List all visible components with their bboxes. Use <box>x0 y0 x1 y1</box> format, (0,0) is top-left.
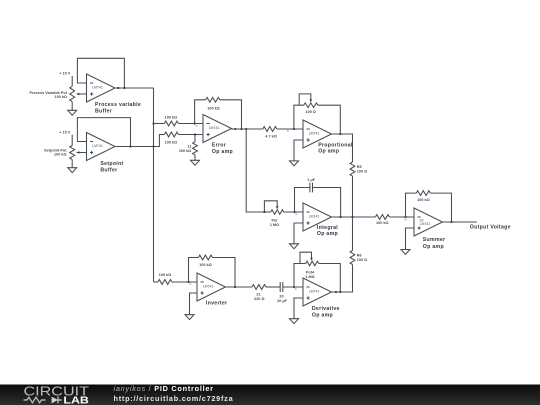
resistor R6 100 Ohm <box>332 217 368 292</box>
CircuitLab logo resistor icon <box>24 397 46 403</box>
node error feedback left junction <box>194 122 196 124</box>
wire pot bottom to ground <box>71 160 73 168</box>
resistor R10 100 kOhm summer feedback <box>406 191 452 222</box>
svg-text:10 μF: 10 μF <box>277 299 288 303</box>
svg-text:100 Ω: 100 Ω <box>306 110 316 114</box>
wire feedback loop U2 output to inverting input <box>77 118 130 147</box>
node U2 feedback junction <box>129 145 131 147</box>
wire inverter + input to ground <box>190 293 198 315</box>
svg-text:R5: R5 <box>357 165 362 169</box>
wire U1 output to bus <box>115 87 154 89</box>
wire feedback loop U1 output to inverting input <box>77 58 124 87</box>
svg-text:100 kΩ: 100 kΩ <box>199 263 211 267</box>
wire inverter input from bus <box>154 281 158 283</box>
op-amp U1 LM741 Process variable Buffer <box>87 74 142 115</box>
potentiometer Setpoint Pot 100 kOhm <box>44 146 75 160</box>
node derivative output pin dot <box>335 291 337 293</box>
op-amp U2 LM741 Setpoint Buffer <box>87 133 124 174</box>
svg-text:Op amp: Op amp <box>423 244 444 250</box>
svg-text:Buffer: Buffer <box>95 109 112 115</box>
node error branch junction <box>245 128 247 130</box>
potentiometer 100 Ohm proportional feedback <box>294 94 340 134</box>
wire derivative + input to ground <box>294 298 303 319</box>
svg-text:Inverter: Inverter <box>206 301 227 307</box>
svg-text:20: 20 <box>279 295 283 299</box>
svg-text:100 Ω: 100 Ω <box>357 170 367 174</box>
resistor R1 100 kOhm (to error - input) <box>154 115 204 126</box>
node inverter feedback junction <box>234 286 236 288</box>
wire error output <box>232 128 263 130</box>
node bus joins setpoint output <box>152 145 154 147</box>
svg-text:Op amp: Op amp <box>318 148 339 154</box>
svg-text:100 kΩ: 100 kΩ <box>55 95 67 99</box>
svg-text:100 kΩ: 100 kΩ <box>165 140 177 144</box>
svg-text:1 μF: 1 μF <box>307 178 315 182</box>
node summer feedback junction <box>450 221 452 223</box>
svg-text:11: 11 <box>187 144 191 148</box>
potentiometer Pot 1 MOhm integral input <box>264 201 303 227</box>
svg-text:http://circuitlab.com/c729fza: http://circuitlab.com/c729fza <box>114 394 234 403</box>
potentiometer Process Variable Pot 100 kOhm <box>30 86 75 101</box>
wire main bus process variable down to inverter <box>153 88 155 282</box>
svg-text:Summer: Summer <box>423 237 446 243</box>
op-amp U3 LM741 Error Op amp <box>203 115 233 156</box>
node +15V supply label (process variable) <box>59 72 72 87</box>
resistor R8 100 kOhm inverter feedback <box>189 255 236 287</box>
CircuitLab logo diode icon <box>52 397 62 404</box>
op-amp U5 LM741 Integral Op amp <box>303 203 338 237</box>
ground (setpoint pot) <box>68 168 77 173</box>
svg-text:100 kΩ: 100 kΩ <box>417 198 429 202</box>
svg-text:LM741: LM741 <box>209 126 220 130</box>
svg-text:Derivative: Derivative <box>312 306 340 312</box>
svg-text:Output Voltage: Output Voltage <box>470 224 511 230</box>
svg-text:LM741: LM741 <box>309 215 320 219</box>
svg-text:4.7 kΩ: 4.7 kΩ <box>265 135 276 139</box>
svg-text:Process variable: Process variable <box>95 102 141 108</box>
capacitor C1 1 uF integral feedback <box>295 178 341 217</box>
op-amp U7 LM741 Derivative Op amp <box>303 278 340 319</box>
node summer input junction <box>404 216 406 218</box>
footer bar <box>0 385 540 405</box>
node bus branch to error inverting input <box>152 122 154 124</box>
capacitor C2 10 uF <box>277 282 303 303</box>
svg-text:100 Ω: 100 Ω <box>357 258 367 262</box>
node derivative feedback junction <box>339 291 341 293</box>
svg-text:220 Ω: 220 Ω <box>254 297 264 301</box>
wire summer output <box>443 221 477 223</box>
svg-text:Op amp: Op amp <box>317 231 338 237</box>
svg-text:Op amp: Op amp <box>312 313 333 319</box>
wire proportional + input to ground <box>294 140 303 161</box>
node R11 tap junction <box>194 133 196 135</box>
resistor R9 100 kOhm summer input <box>375 215 414 226</box>
resistor R21 220 Ohm <box>252 285 280 302</box>
svg-text:LM741: LM741 <box>92 86 103 90</box>
resistor R5 100 Ohm <box>350 162 367 217</box>
svg-text:R6: R6 <box>357 254 362 258</box>
wire setpoint jog up to error + resistor <box>154 135 165 147</box>
node +15V supply label (setpoint) <box>59 130 72 145</box>
node integral input junction <box>293 211 295 213</box>
ground (integral) <box>290 244 299 249</box>
ground (summer) <box>401 250 410 255</box>
svg-text:+ 15 V: + 15 V <box>59 72 71 76</box>
svg-text:+ 15 V: + 15 V <box>59 130 71 134</box>
svg-text:Setpoint: Setpoint <box>100 161 123 167</box>
svg-text:100 kΩ: 100 kΩ <box>376 221 388 225</box>
resistor R3 100 kOhm error feedback <box>195 97 242 129</box>
resistor R4 4.7 kOhm <box>263 127 303 139</box>
ground (error + divider) <box>191 160 200 165</box>
op-amp U6 LM741 Inverter <box>197 273 227 307</box>
node proportional input junction <box>293 128 295 130</box>
svg-text:LM741: LM741 <box>309 290 320 294</box>
ground (process variable pot) <box>68 110 77 115</box>
node summing bus junction <box>351 216 353 218</box>
svg-text:LM741: LM741 <box>92 144 103 148</box>
wire pot wiper to buffer + input <box>76 151 87 154</box>
wire error branch down to integral pot <box>246 129 264 212</box>
potentiometer Pot4 1 MOhm derivative feedback <box>294 252 340 292</box>
node integral pot left junction <box>263 211 265 213</box>
node error feedback junction <box>240 128 242 130</box>
node error output pin dot <box>234 128 236 130</box>
svg-text:100 kΩ: 100 kΩ <box>54 152 66 156</box>
svg-text:100 kΩ: 100 kΩ <box>159 273 171 277</box>
svg-text:Error: Error <box>212 142 226 148</box>
svg-text:LM741: LM741 <box>309 132 320 136</box>
node U1 output pin dot <box>117 87 119 89</box>
svg-text:1 MΩ: 1 MΩ <box>270 223 279 227</box>
node inverter input junction <box>187 281 189 283</box>
ground (proportional) <box>290 161 299 166</box>
svg-text:100 kΩ: 100 kΩ <box>179 149 191 153</box>
ground (derivative) <box>290 319 299 324</box>
svg-text:Buffer: Buffer <box>100 167 117 173</box>
wire U2 output to bus <box>115 146 154 148</box>
ground (inverter) <box>185 315 194 320</box>
svg-text:LAB: LAB <box>63 395 89 405</box>
resistor R7 100 kOhm inverter input <box>158 273 197 284</box>
svg-text:Pot: Pot <box>271 219 278 223</box>
wire pot wiper to buffer + input <box>76 93 87 96</box>
svg-text:LM741: LM741 <box>420 222 431 226</box>
wire inverter output <box>226 286 252 288</box>
wire summer + input to ground <box>406 228 415 250</box>
wire pot bottom to ground <box>71 102 73 111</box>
svg-text:LM741: LM741 <box>203 285 214 289</box>
svg-text:100 kΩ: 100 kΩ <box>207 106 219 110</box>
wire integral output to summer resistor <box>332 216 376 218</box>
node integral feedback junction <box>340 216 342 218</box>
wire integral + input to ground <box>294 223 303 244</box>
svg-text:21: 21 <box>256 293 260 297</box>
svg-text:ianyikos / PID Controller: ianyikos / PID Controller <box>114 384 214 393</box>
resistor R2 100 kOhm (to error + input) <box>164 132 203 144</box>
resistor R11 100 kOhm to ground <box>179 135 198 161</box>
node U1 feedback junction <box>123 87 125 89</box>
wire proportional output to R5 <box>332 134 353 162</box>
svg-text:Op amp: Op amp <box>212 149 233 155</box>
svg-text:1 MΩ: 1 MΩ <box>305 275 314 279</box>
op-amp U4 LM741 Proportional Op amp <box>303 120 353 154</box>
node derivative input junction <box>293 286 295 288</box>
op-amp U8 LM741 Summer Op amp <box>414 208 445 250</box>
svg-text:Pot4: Pot4 <box>306 271 315 275</box>
node proportional feedback junction <box>339 133 341 135</box>
svg-text:100 kΩ: 100 kΩ <box>165 115 177 119</box>
